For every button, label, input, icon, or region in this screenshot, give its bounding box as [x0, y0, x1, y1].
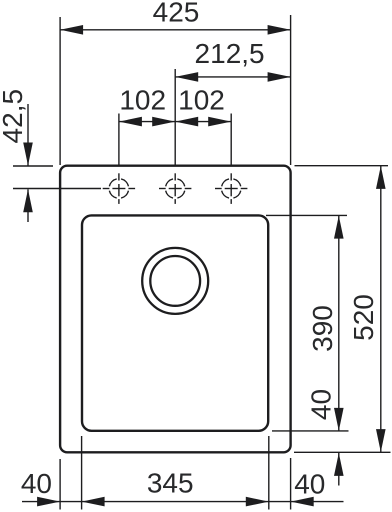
extension bottom x=81.6: [81, 436, 83, 510]
extension 390 top: [266, 214, 347, 216]
faucet hole 2: [159, 173, 191, 204]
extension bottom x=290.6: [290, 458, 292, 510]
faucet hole 3: [215, 173, 247, 204]
svg-text:212,5: 212,5: [195, 38, 265, 69]
svg-text:425: 425: [153, 0, 200, 28]
svg-text:42,5: 42,5: [0, 89, 28, 144]
dimension 40 upper-right arrow: [338, 453, 340, 486]
extension bottom x=268.8: [268, 436, 270, 510]
svg-text:40: 40: [294, 469, 325, 500]
extension 520 bottom: [294, 451, 391, 453]
svg-text:102: 102: [178, 85, 225, 116]
drain outer circle: [142, 248, 208, 314]
sink outer outline: [60, 166, 291, 453]
svg-text:40: 40: [21, 468, 52, 499]
drain inner circle: [150, 256, 200, 306]
extension line center x=175: [174, 69, 176, 166]
dimension 102 lines: [119, 121, 231, 123]
svg-text:390: 390: [307, 305, 338, 352]
extension line left x=60 top: [59, 17, 61, 165]
dimension 212,5 line: [175, 76, 290, 78]
dimension 390 line: [338, 216, 340, 431]
svg-text:102: 102: [119, 85, 166, 116]
faucet centerline to left: [13, 188, 101, 190]
bottom dimension line: [22, 501, 344, 503]
extension 390 bottom: [272, 430, 349, 432]
extension 520 top: [295, 165, 389, 167]
extension bottom x=60: [59, 459, 61, 510]
extension line x=118.9: [118, 114, 120, 166]
bowl inner outline: [82, 215, 268, 430]
extension line right x=290 top: [290, 15, 292, 165]
dimension 425 line: [60, 29, 291, 31]
svg-text:520: 520: [348, 294, 379, 341]
dimension 42,5 line: [27, 104, 29, 166]
svg-text:345: 345: [147, 468, 194, 499]
dimension 520 line: [380, 166, 382, 452]
extension line x=231.2: [230, 114, 232, 166]
faucet hole 1: [103, 173, 135, 204]
svg-text:40: 40: [306, 389, 337, 420]
extension sink-top to left: [13, 165, 53, 167]
